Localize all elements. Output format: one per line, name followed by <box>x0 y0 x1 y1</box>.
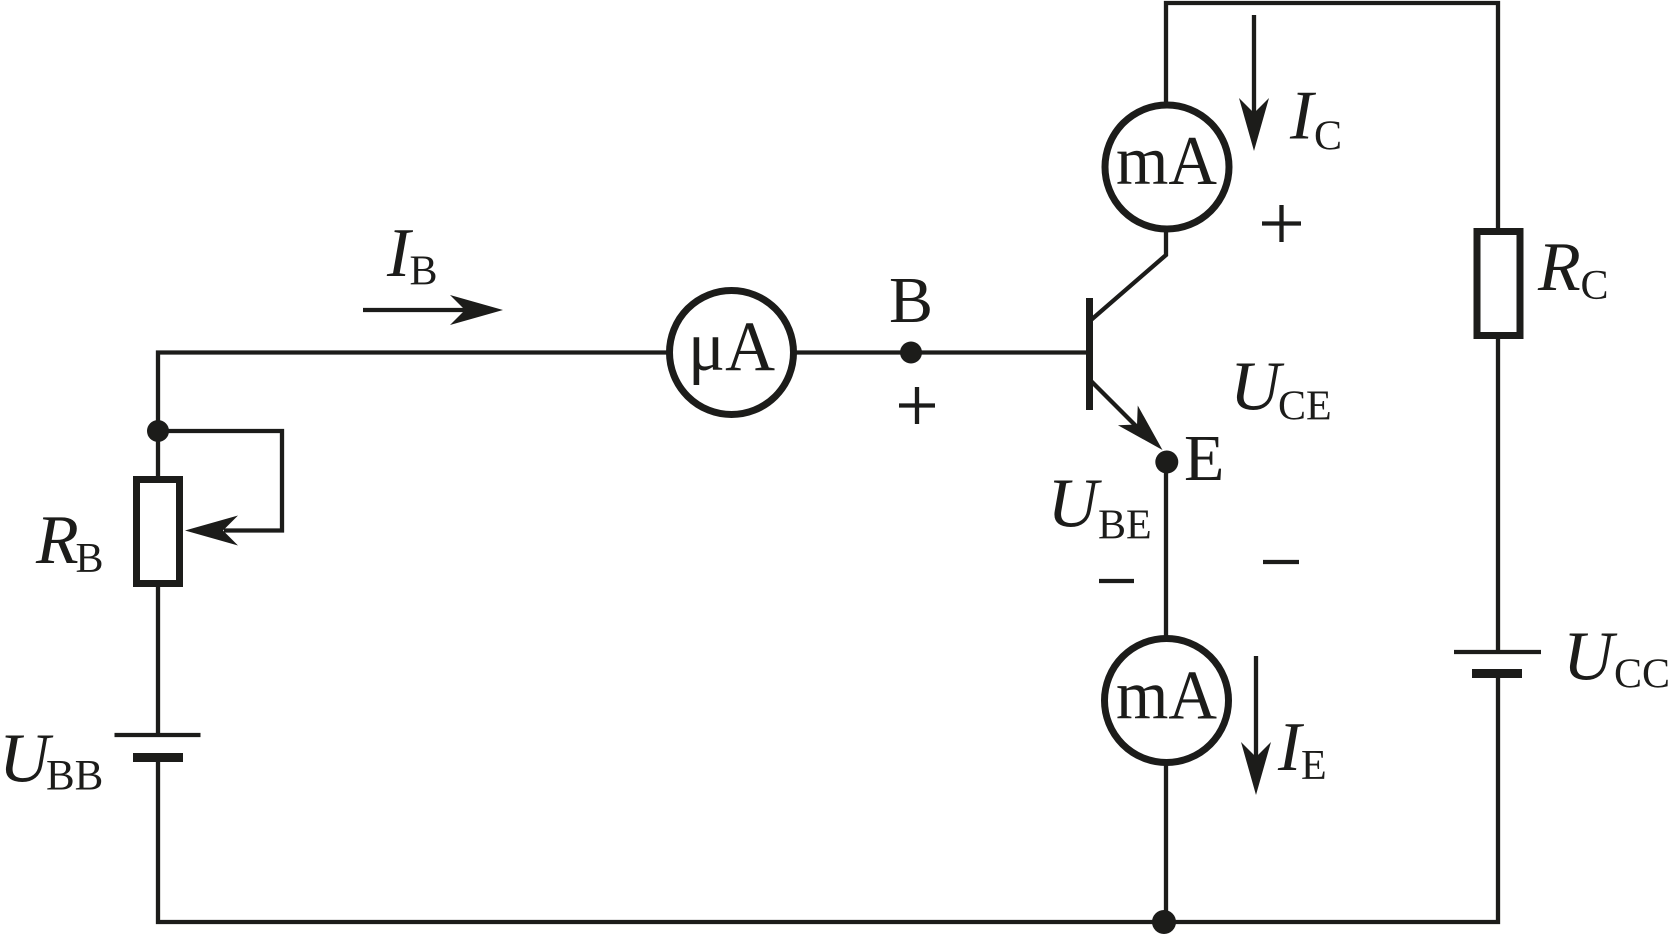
svg-text:R: R <box>1537 229 1581 306</box>
svg-text:E: E <box>1301 743 1327 789</box>
svg-text:E: E <box>1184 422 1224 495</box>
svg-text:U: U <box>1048 466 1103 543</box>
svg-text:C: C <box>1581 263 1609 309</box>
svg-text:CE: CE <box>1278 384 1332 430</box>
svg-text:B: B <box>410 249 438 295</box>
svg-text:BB: BB <box>46 753 103 800</box>
svg-text:C: C <box>1314 114 1342 160</box>
svg-text:mA: mA <box>1116 123 1217 200</box>
svg-text:U: U <box>1563 619 1618 696</box>
svg-text:BE: BE <box>1098 503 1152 549</box>
svg-text:μA: μA <box>688 308 775 386</box>
svg-text:B: B <box>889 264 933 337</box>
svg-text:I: I <box>1289 78 1317 155</box>
svg-text:CC: CC <box>1614 652 1668 698</box>
svg-text:mA: mA <box>1116 658 1217 735</box>
svg-text:U: U <box>1230 349 1285 426</box>
svg-text:B: B <box>76 536 104 582</box>
svg-text:R: R <box>35 502 79 579</box>
